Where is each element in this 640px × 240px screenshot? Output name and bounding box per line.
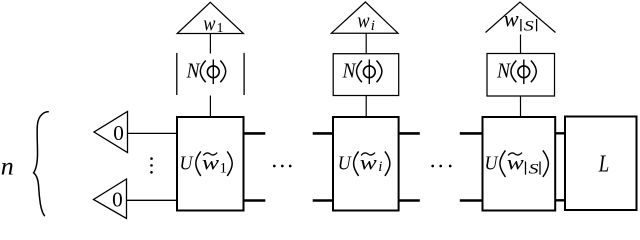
wire stub Ui left top: [313, 132, 334, 135]
wire stub Ui right bottom: [399, 199, 420, 202]
svg-text:1: 1: [217, 21, 224, 36]
wire N-box3 to U|S|: [520, 96, 522, 117]
unitary box Ui: [333, 117, 399, 211]
triangle w_i (input state triangle, column 2): [331, 2, 398, 33]
svg-text:S: S: [524, 18, 535, 34]
brace (left curly bracket spanning n wires): [34, 112, 49, 216]
svg-text:S: S: [529, 162, 540, 178]
svg-text:1: 1: [220, 161, 228, 177]
zero-state triangle B (bottom qubit): [94, 179, 127, 219]
wire stub Ui left bottom: [313, 199, 334, 202]
wire stub U1 right top: [244, 132, 266, 135]
noise box N3: [487, 54, 555, 97]
vdots between input wires: [150, 157, 153, 160]
svg-text:0: 0: [112, 188, 123, 212]
measurement box L: [565, 117, 637, 211]
wire qubit2 into U1: [127, 199, 178, 201]
svg-text:w: w: [504, 6, 520, 31]
wire triangle1 to N-box1: [209, 34, 211, 54]
wire stub Ui right top: [399, 132, 420, 135]
svg-text:N: N: [342, 59, 357, 83]
zero-state triangle A (top qubit): [94, 112, 128, 153]
svg-text:w: w: [357, 7, 369, 32]
label N(phi) 2: [342, 59, 382, 84]
label U(w~_|S|): [485, 150, 549, 177]
label N(phi) 1: [186, 59, 226, 84]
label N(phi) 3: [496, 59, 536, 84]
svg-text:n: n: [1, 154, 14, 181]
svg-text:i: i: [378, 159, 382, 175]
noise box N1 (side bars only): [176, 53, 178, 95]
wire stub U1 right bottom: [244, 199, 266, 202]
svg-text:i: i: [371, 18, 375, 34]
label w_|S| : bar 2: [536, 19, 538, 31]
label w_|S| : bar 1: [520, 19, 522, 31]
label U(w~_i): [338, 151, 390, 176]
cdots 1: [273, 165, 276, 168]
chevron w_|S| (open triangle, column 3): [486, 2, 556, 33]
noise box N2: [333, 54, 399, 96]
unitary box U|S|: [483, 117, 556, 211]
label U(w~_1): [180, 151, 233, 177]
wire U|S| to L top: [555, 132, 565, 134]
svg-text:U: U: [180, 153, 194, 175]
wire chevron to N-box3: [520, 35, 522, 55]
svg-text:N: N: [186, 59, 201, 83]
wire stub U|S| left bottom: [460, 199, 483, 202]
svg-text:L: L: [598, 152, 609, 178]
unitary box U1: [177, 117, 244, 211]
triangle w1 (input state triangle, column 1): [177, 2, 243, 33]
svg-text:0: 0: [113, 121, 124, 145]
svg-text:w: w: [203, 11, 215, 36]
cdots 2: [431, 165, 434, 168]
svg-text:U: U: [485, 153, 499, 175]
wire N-box1 to U1: [209, 96, 211, 118]
wire U|S| to L bottom: [555, 199, 565, 201]
wire qubit1 into U1: [128, 132, 178, 134]
wire triangle2 to N-box2: [365, 33, 367, 54]
wire stub U|S| left top: [460, 132, 483, 135]
svg-text:N: N: [496, 59, 511, 83]
svg-text:U: U: [338, 153, 352, 175]
wire N-box2 to Ui: [365, 96, 367, 118]
